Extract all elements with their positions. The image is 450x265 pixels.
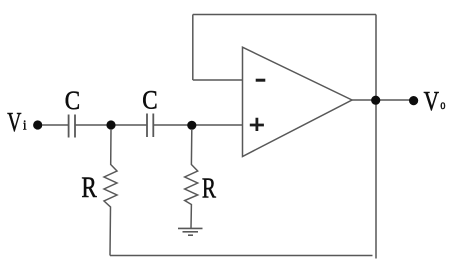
svg-text:R: R <box>81 170 97 204</box>
node A junction dot <box>106 120 115 129</box>
svg-text:C: C <box>65 87 80 116</box>
resistor R2 <box>185 129 198 228</box>
svg-text:R: R <box>202 172 216 204</box>
wire feedback top horizontal <box>193 14 376 16</box>
wire inverting input to feedback <box>193 79 243 81</box>
svg-text:C: C <box>142 86 157 115</box>
capacitor C1 <box>69 115 75 138</box>
resistor R1 <box>104 129 117 256</box>
capacitor C2 <box>147 114 153 138</box>
wire bottom horizontal <box>110 255 373 257</box>
wire feedback left vertical <box>192 15 194 81</box>
input terminal dot <box>33 120 42 129</box>
ground <box>178 228 203 235</box>
op-amp minus sign <box>256 79 266 82</box>
output terminal dot <box>409 96 418 105</box>
op-amp U1 <box>243 47 353 156</box>
svg-text:o: o <box>440 97 445 113</box>
wire C1 to C2 <box>75 124 147 126</box>
wire C2 to op-amp noninverting input <box>153 124 242 126</box>
svg-text:V: V <box>7 108 21 138</box>
wire feedback right vertical <box>375 15 377 259</box>
svg-text:i: i <box>23 117 27 133</box>
wire op-amp output to Vo <box>352 99 414 101</box>
output node junction dot <box>371 96 380 105</box>
wire Vi to C1 <box>42 124 69 126</box>
op-amp plus sign <box>250 118 264 131</box>
node B junction dot <box>187 121 196 130</box>
svg-text:V: V <box>424 87 440 117</box>
